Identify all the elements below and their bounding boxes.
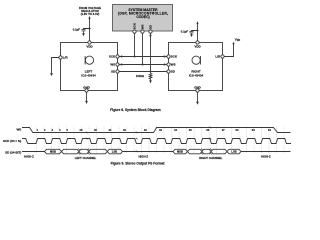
svg-text:Figure 8. System Block Diagram: Figure 8. System Block Diagram: [110, 108, 160, 112]
right mic port symbol: [192, 56, 201, 65]
svg-text:62: 62: [236, 128, 239, 132]
WS waveform: [22, 128, 291, 133]
svg-text:0.1µF: 0.1µF: [73, 28, 80, 32]
master SD terminal: [149, 30, 152, 33]
wire to capacitor C2: [192, 31, 198, 32]
right pin WS: [167, 63, 170, 66]
wire master WS down: [142, 33, 144, 65]
right pin L/R: [221, 55, 224, 58]
svg-text:63: 63: [252, 128, 255, 132]
SD bit cell left 23: [89, 149, 108, 154]
wire SD to resistor R1: [150, 72, 152, 74]
svg-text:31: 31: [109, 128, 112, 132]
svg-text:64: 64: [268, 128, 271, 132]
left mic port symbol: [85, 56, 94, 65]
SD bit cell left break: [79, 149, 89, 154]
break tick SCK left: [86, 138, 88, 140]
svg-text:CODEC): CODEC): [136, 15, 149, 19]
break ticks SD left cell end: [88, 149, 90, 151]
break ticks SD left cell start: [78, 149, 80, 151]
svg-text:WS: WS: [171, 63, 176, 67]
svg-text:32: 32: [144, 128, 147, 132]
SCK clock numbers: [37, 128, 272, 132]
svg-text:35: 35: [189, 128, 192, 132]
break ticks SD right cell end: [210, 149, 212, 151]
svg-text:HIGH-Z: HIGH-Z: [138, 155, 148, 159]
break tick marks: [78, 127, 212, 155]
wire right GND: [197, 92, 199, 102]
SCK clock waveform: [22, 139, 291, 144]
arrow up to regulator: [88, 16, 90, 19]
svg-text:SCK: SCK: [109, 55, 116, 59]
node SCK junction: [133, 55, 135, 57]
svg-text:GND: GND: [194, 85, 202, 89]
master WS terminal: [141, 30, 144, 33]
node right VDD junction: [196, 29, 198, 31]
wire right VDD supply: [197, 23, 199, 41]
ground below left L/R: [50, 73, 53, 76]
left pin SCK: [116, 55, 119, 58]
svg-text:32: 32: [123, 128, 126, 132]
right pin SCK: [167, 55, 170, 58]
SD bit cell left LSB: [107, 149, 122, 154]
break tick SD high-z middle: [136, 151, 138, 153]
svg-text:SD (24-BIT): SD (24-BIT): [5, 150, 21, 154]
svg-text:HIGH-Z: HIGH-Z: [261, 155, 271, 159]
svg-text:L/R: L/R: [215, 55, 221, 59]
svg-text:ICS-43434: ICS-43434: [81, 74, 96, 78]
capacitor C1: [82, 30, 86, 34]
svg-text:LSB: LSB: [112, 150, 117, 154]
break ticks SD right cell start: [201, 149, 203, 151]
arrow up right L/R to VDD: [232, 42, 234, 45]
svg-text:HIGH-Z: HIGH-Z: [24, 155, 34, 159]
ground below C1: [82, 33, 85, 36]
SD bit cell right break: [202, 149, 211, 154]
node left VDD junction: [88, 27, 90, 29]
node WS junction: [141, 63, 143, 65]
timing grid dotted lines: [37, 127, 285, 154]
arrow into left WS: [119, 63, 122, 66]
svg-text:RIGHT CHANNEL: RIGHT CHANNEL: [199, 156, 222, 160]
wire master SD down: [150, 33, 152, 72]
right pin GND: [196, 89, 199, 92]
svg-text:(1.8V TO 3.3V): (1.8V TO 3.3V): [81, 12, 100, 16]
SD right channel data bubbles: [173, 149, 241, 154]
SD bit cell right 23: [211, 149, 227, 154]
wire right L/R to VDD: [224, 44, 234, 57]
svg-text:WS: WS: [140, 24, 144, 29]
arrow into right WS: [164, 63, 167, 66]
right microphone U2 ICS-43434 box: [169, 43, 223, 91]
wire left VDD supply: [89, 18, 91, 41]
svg-text:WS: WS: [16, 127, 21, 131]
svg-text:33: 33: [159, 128, 162, 132]
arrow up right supply: [196, 21, 198, 24]
arrow into right SCK: [164, 55, 167, 58]
system master box U3: [113, 5, 173, 32]
SD bit cell left MSB: [45, 149, 62, 154]
svg-text:Figure 9. Stereo Output I²S Fo: Figure 9. Stereo Output I²S Format: [111, 161, 166, 165]
svg-text:SCK: SCK: [171, 55, 178, 59]
svg-text:36: 36: [206, 128, 209, 132]
wire left GND: [86, 92, 88, 101]
svg-text:VDD: VDD: [194, 44, 201, 48]
svg-text:ICS-43434: ICS-43434: [189, 74, 204, 78]
arrow into left SCK: [119, 55, 122, 58]
left pin VDD: [88, 41, 91, 44]
svg-text:WS: WS: [110, 63, 115, 67]
svg-text:MSB: MSB: [177, 150, 183, 154]
master SCK terminal: [133, 30, 136, 33]
break tick SCK right: [210, 138, 212, 140]
SD high-z line middle: [123, 151, 174, 153]
wire left L/R to ground: [52, 58, 60, 74]
capacitor C2: [190, 32, 194, 35]
break tick WS high right: [210, 127, 212, 129]
wire SCK bus: [119, 56, 167, 58]
svg-text:VDD: VDD: [86, 44, 93, 48]
SD high-z line left: [22, 151, 45, 153]
node SD junction: [149, 70, 151, 72]
left pin GND: [85, 89, 88, 92]
right pin VDD: [196, 41, 199, 44]
svg-text:37: 37: [222, 128, 225, 132]
left pin WS: [116, 63, 119, 66]
svg-text:L/R: L/R: [63, 56, 69, 60]
ground below R1: [149, 80, 152, 83]
SD high-z line right: [241, 151, 291, 153]
svg-text:GND: GND: [83, 85, 91, 89]
svg-text:34: 34: [174, 128, 177, 132]
break tick WS low middle: [136, 132, 138, 134]
SD bit cell right MSB: [173, 149, 188, 154]
svg-text:MSB: MSB: [50, 150, 56, 154]
wire master SCK down: [134, 33, 136, 57]
svg-text:SD: SD: [148, 25, 152, 29]
right pin SD: [167, 70, 170, 73]
svg-text:SCK: SCK: [132, 22, 136, 29]
ground below right GND: [196, 102, 199, 105]
resistor R1: [149, 73, 152, 79]
left microphone U1 ICS-43434 box: [61, 43, 118, 91]
break tick SCK middle: [136, 138, 138, 140]
SD left channel data bubbles: [45, 149, 123, 154]
wire to capacitor C1: [84, 29, 90, 30]
left pin SD: [116, 70, 119, 73]
svg-text:LEFT CHANNEL: LEFT CHANNEL: [75, 156, 97, 160]
svg-text:30: 30: [94, 128, 97, 132]
svg-text:LSB: LSB: [231, 150, 236, 154]
wire WS bus: [119, 64, 167, 66]
ground below C2: [190, 34, 193, 37]
ground below left GND: [85, 101, 88, 104]
svg-text:SCK (64 × fS): SCK (64 × fS): [3, 139, 21, 143]
SD bit cell right LSB: [227, 149, 241, 154]
SD bit cell left 2: [62, 149, 80, 154]
svg-text:0.1µF: 0.1µF: [181, 30, 188, 34]
svg-text:29: 29: [80, 128, 83, 132]
wire SD bus: [119, 71, 167, 73]
left pin L/R: [59, 56, 62, 59]
svg-text:100kΩ: 100kΩ: [136, 74, 145, 78]
arrow up into master SD: [149, 34, 152, 37]
supply note FROM VOLTAGE REGULATOR: [79, 6, 101, 16]
break tick WS low left: [86, 132, 88, 134]
SD bit cell right 2: [188, 149, 203, 154]
